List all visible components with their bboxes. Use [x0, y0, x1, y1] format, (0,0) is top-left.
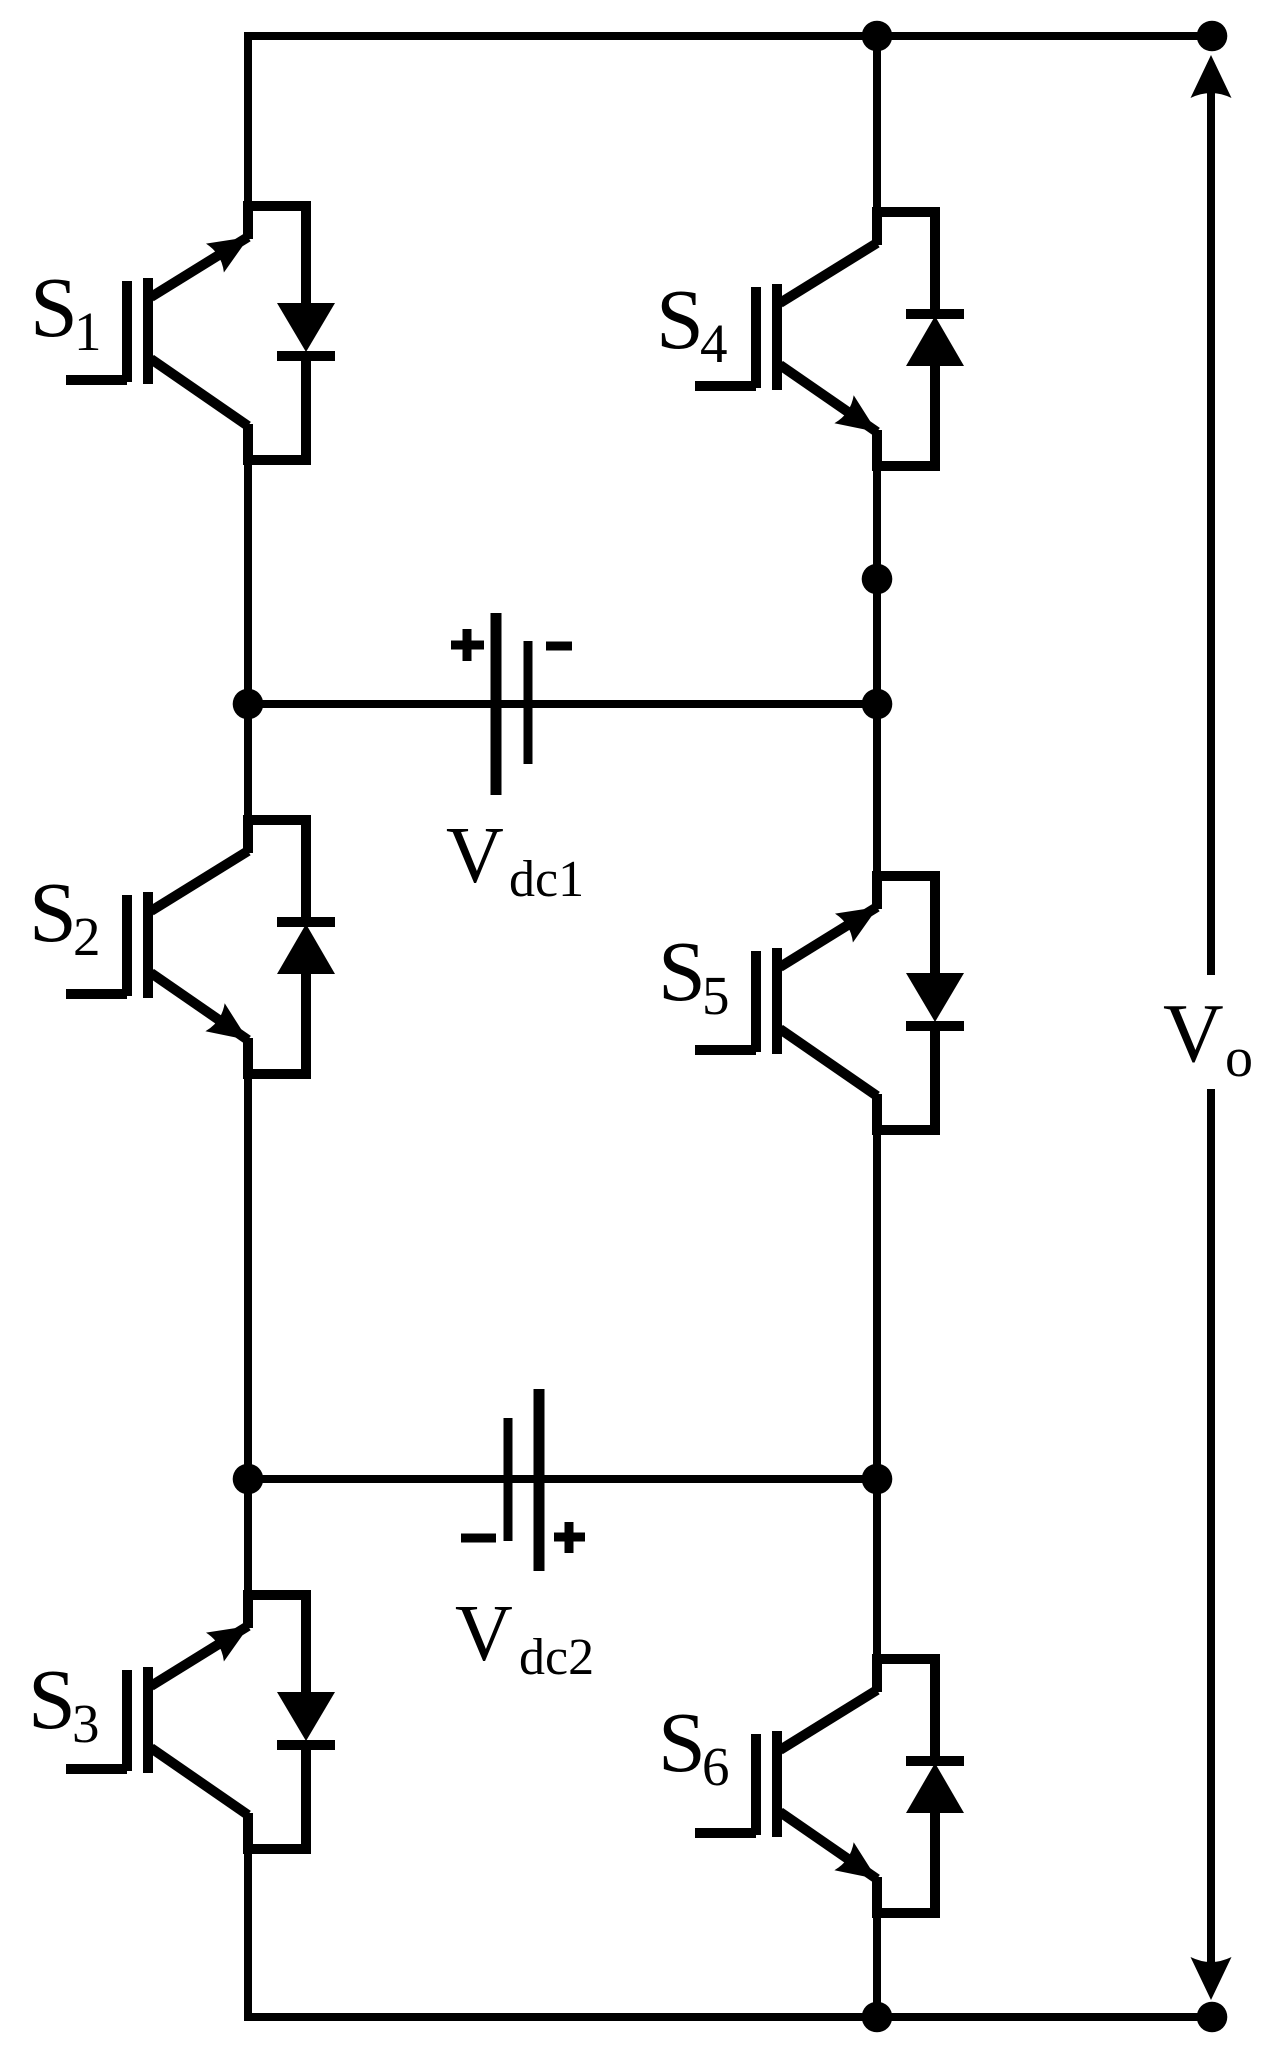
label S2 — [29, 864, 101, 967]
node: top rail / Vo line junction — [1197, 21, 1228, 52]
svg-text:S: S — [658, 923, 706, 1019]
Vo measurement line lower segment with down arrowhead — [1191, 1089, 1232, 2000]
wire: Vdc2 horizontal wire — [248, 1475, 877, 1483]
node: left rail / Vdc1 junction — [233, 689, 264, 720]
label S1 — [30, 259, 102, 362]
battery Vdc2 (DC source) — [508, 1389, 539, 1571]
svg-text:3: 3 — [72, 1693, 100, 1754]
svg-text:1: 1 — [74, 301, 102, 362]
wire: right rail, S4 bottom to Vdc1 node — [873, 461, 881, 709]
node: right rail / Vdc2 junction — [862, 1464, 893, 1495]
svg-text:V: V — [446, 812, 504, 900]
svg-text:V: V — [1163, 987, 1224, 1080]
svg-text:S: S — [28, 1651, 76, 1747]
diode D1 (anti-parallel with S1) — [248, 206, 335, 460]
wire: right rail, Vdc1 node to S5 top — [873, 699, 881, 881]
diode D6 (anti-parallel with S6) — [877, 1659, 964, 1913]
wire: right rail, Vdc2 node to S6 top — [873, 1474, 881, 1664]
wire: right rail, top to S4 — [873, 32, 881, 217]
wire: right rail, S6 bottom to bottom rail — [873, 1908, 881, 2021]
transistor S4 (IGBT) — [695, 207, 877, 471]
transistor S5 (IGBT) — [695, 871, 878, 1135]
node: bottom rail / Vo line junction — [1197, 2002, 1228, 2033]
diode D5 (anti-parallel with S5) — [877, 876, 964, 1130]
label Vo — [1163, 987, 1253, 1089]
node: right rail dot below S4 — [862, 564, 893, 595]
Vo measurement line upper segment with up arrowhead — [1191, 55, 1232, 975]
transistor S3 (IGBT) — [66, 1590, 249, 1854]
svg-text:S: S — [29, 864, 77, 960]
diode D3 (anti-parallel with S3) — [248, 1595, 335, 1849]
svg-text:S: S — [656, 271, 704, 367]
wire: left rail, Vdc1 node to S2 top — [244, 699, 252, 825]
svg-text:2: 2 — [73, 906, 101, 967]
svg-text:V: V — [455, 1590, 513, 1678]
transistor S2 (IGBT) — [66, 815, 248, 1079]
svg-text:S: S — [30, 259, 78, 355]
node: left rail / Vdc2 junction — [233, 1464, 264, 1495]
svg-text:dc2: dc2 — [519, 1629, 594, 1686]
plus sign of Vdc1 — [451, 629, 484, 661]
wire: right rail, S5 bottom to Vdc2 node — [873, 1125, 881, 1484]
wire: left rail, Vdc2 node to S3 top — [244, 1474, 252, 1600]
diode D4 (anti-parallel with S4) — [877, 212, 964, 466]
label Vdc1 — [446, 812, 584, 908]
svg-text:o: o — [1225, 1027, 1253, 1089]
transistor S1 (IGBT) — [66, 201, 249, 465]
svg-text:dc1: dc1 — [509, 851, 584, 908]
label S4 — [656, 271, 728, 374]
label S6 — [658, 1694, 730, 1797]
svg-text:4: 4 — [700, 313, 728, 374]
wire: left rail, S2 bottom to Vdc2 node — [244, 1069, 252, 1484]
svg-text:5: 5 — [702, 965, 730, 1026]
transistor S6 (IGBT) — [695, 1654, 877, 1918]
minus sign of Vdc1 — [546, 642, 572, 651]
wire: Vdc1 horizontal wire — [248, 700, 877, 708]
node: bottom rail / right rail junction — [862, 2002, 893, 2033]
node: right rail / Vdc1 junction — [862, 689, 893, 720]
minus sign of Vdc2 — [461, 1534, 496, 1543]
svg-text:6: 6 — [702, 1736, 730, 1797]
wire: left rail, S1 bottom to Vdc1 node — [244, 455, 252, 709]
node: top rail / right rail junction — [862, 21, 893, 52]
wire: bottom rail with left corner — [248, 1844, 1212, 2017]
label S5 — [658, 923, 730, 1026]
diode D2 (anti-parallel with S2) — [248, 820, 335, 1074]
label S3 — [28, 1651, 100, 1754]
battery Vdc1 (DC source) — [496, 613, 528, 795]
label Vdc2 — [455, 1590, 594, 1686]
plus sign of Vdc2 — [554, 1522, 585, 1553]
wire: top rail with left corner — [248, 36, 1212, 211]
svg-text:S: S — [658, 1694, 706, 1790]
